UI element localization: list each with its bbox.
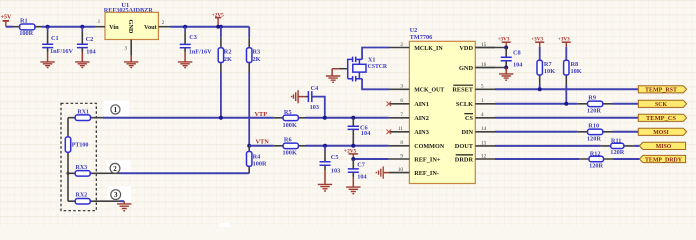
- svg-text:SCLK: SCLK: [456, 101, 473, 108]
- svg-text:100K: 100K: [283, 150, 297, 157]
- svg-text:RX2: RX2: [76, 193, 88, 199]
- capacitor C4: [306, 85, 320, 111]
- node circle 3: [111, 190, 121, 200]
- svg-text:3: 3: [124, 45, 127, 51]
- port SCK: [638, 100, 686, 108]
- svg-text:104: 104: [361, 130, 371, 137]
- U1 pin 3: [124, 40, 131, 56]
- svg-text:R3: R3: [253, 49, 261, 56]
- svg-text:RESET: RESET: [452, 87, 473, 94]
- wire X1 to MCK_OUT: [362, 79, 389, 90]
- wire R5 to AIN2: [306, 117, 389, 119]
- svg-text:6: 6: [400, 98, 403, 104]
- ground under C5: [318, 165, 332, 191]
- svg-text:1: 1: [481, 98, 484, 104]
- resistor R7: [537, 60, 555, 85]
- svg-text:7: 7: [400, 112, 403, 118]
- svg-text:C5: C5: [331, 154, 339, 161]
- svg-text:COMMON: COMMON: [414, 143, 444, 150]
- junction C2: [80, 25, 84, 29]
- resistor RX1: [68, 110, 103, 121]
- svg-text:Vin: Vin: [109, 24, 119, 31]
- wire VTP line: [103, 117, 273, 119]
- junction R7/RESET: [538, 87, 542, 91]
- resistor R10: [577, 123, 612, 143]
- junction C6 top: [351, 116, 355, 120]
- svg-text:100K: 100K: [283, 122, 297, 129]
- svg-text:GND: GND: [459, 65, 473, 72]
- junction +2V5/R2: [216, 25, 220, 29]
- wire RESET to port: [495, 88, 638, 90]
- svg-text:R6: R6: [284, 137, 292, 144]
- resistor R1: [13, 17, 42, 37]
- svg-text:DOUT: DOUT: [455, 143, 474, 150]
- svg-text:13: 13: [481, 140, 487, 146]
- svg-text:103: 103: [331, 167, 340, 174]
- junction GND/C8: [504, 66, 508, 70]
- svg-text:120R: 120R: [587, 108, 601, 115]
- port TEMP_CS: [638, 114, 686, 122]
- svg-text:2K: 2K: [224, 56, 232, 63]
- node circle 2: [110, 163, 120, 173]
- svg-text:AIN2: AIN2: [414, 115, 429, 122]
- ground at REF_IN-: [376, 166, 389, 178]
- svg-text:104: 104: [513, 62, 523, 69]
- svg-text:MISO: MISO: [656, 144, 672, 150]
- junction sensor vertical / RX3: [66, 172, 69, 175]
- resistor R4: [247, 146, 268, 174]
- svg-text:AIN1: AIN1: [414, 101, 429, 108]
- wire REF_IN+ line: [353, 158, 388, 160]
- vertical wire inside sensor box: [67, 118, 69, 202]
- wire R2 to VTP line: [220, 73, 222, 118]
- svg-text:10K: 10K: [544, 68, 555, 75]
- wire line 2 to R4: [119, 172, 249, 174]
- svg-text:C3: C3: [189, 34, 197, 41]
- svg-text:R5: R5: [284, 109, 292, 116]
- power +3V3 at R8: [558, 37, 571, 61]
- svg-text:CSTCR: CSTCR: [368, 64, 388, 70]
- port TEMP_DRDY: [639, 155, 685, 163]
- svg-text:1nF/16V: 1nF/16V: [189, 48, 213, 55]
- power +2V5 top: [212, 13, 224, 27]
- svg-text:CS: CS: [465, 115, 474, 122]
- svg-text:MCK_OUT: MCK_OUT: [414, 87, 445, 94]
- svg-text:8: 8: [400, 140, 403, 146]
- svg-text:3: 3: [114, 191, 118, 199]
- capacitor C2: [77, 27, 97, 56]
- wire R1 to U1 pin1: [42, 26, 95, 28]
- svg-text:REF_IN-: REF_IN-: [414, 170, 439, 177]
- U1 pin 1: [95, 19, 105, 27]
- white patch behind circle 1: [104, 101, 130, 117]
- port TEMP_RST: [638, 86, 686, 94]
- ground under U1 pin 3: [124, 56, 138, 68]
- capacitor C1: [42, 27, 73, 55]
- svg-text:100R: 100R: [253, 160, 267, 167]
- power +5V: [1, 15, 12, 27]
- svg-text:10K: 10K: [571, 68, 582, 75]
- svg-text:11: 11: [398, 126, 403, 132]
- svg-text:C4: C4: [311, 85, 320, 92]
- resistor R2: [218, 27, 232, 73]
- capacitor C3: [180, 27, 212, 56]
- resistor R12: [579, 150, 614, 169]
- junction C6 bottom: [351, 144, 355, 148]
- wire VTN line: [249, 145, 273, 147]
- svg-text:1: 1: [98, 19, 101, 25]
- op-amp U1 REF3025AIDBZR: [104, 2, 159, 40]
- wire X1 to MCLK_IN: [362, 48, 389, 60]
- svg-text:120R: 120R: [610, 149, 624, 156]
- svg-text:DIN: DIN: [461, 129, 473, 136]
- wire R3 to VTN line: [248, 73, 250, 146]
- svg-text:R11: R11: [611, 138, 622, 145]
- svg-text:2K: 2K: [253, 56, 261, 63]
- svg-text:X1: X1: [368, 58, 375, 64]
- wire line 3 to ground: [120, 200, 124, 202]
- svg-text:DRDR: DRDR: [455, 156, 474, 163]
- svg-text:+5V: +5V: [1, 15, 12, 21]
- junction C7 top: [351, 157, 355, 161]
- svg-text:3: 3: [400, 84, 403, 90]
- svg-text:1nF/16V: 1nF/16V: [50, 48, 74, 55]
- svg-text:VTP: VTP: [255, 111, 268, 118]
- wire +5V to R1: [6, 26, 13, 28]
- svg-text:104: 104: [86, 48, 96, 55]
- svg-text:PT100: PT100: [72, 143, 89, 149]
- power +3V3 at VDD: [498, 37, 511, 48]
- U1 pin 2: [158, 20, 170, 27]
- ground line 3: [117, 201, 131, 211]
- crystal X1 CSTCR: [348, 57, 388, 82]
- ground under C7: [346, 172, 360, 193]
- port MOSI: [638, 128, 686, 136]
- svg-text:12: 12: [481, 153, 487, 159]
- junction R2/VTP: [219, 116, 223, 120]
- wire DRDY to R12: [495, 158, 579, 160]
- dashed sensor box: [61, 103, 96, 210]
- no connect X on AIN3: [387, 130, 392, 135]
- svg-text:Vout: Vout: [144, 24, 158, 31]
- U2 left pin stubs: [389, 42, 410, 173]
- svg-text:2: 2: [113, 165, 117, 173]
- wire R9 to port SCK: [613, 103, 639, 105]
- svg-text:U2: U2: [410, 27, 418, 34]
- white patch behind circle 2: [107, 160, 131, 176]
- wire R12 to port TEMP_DRDY: [614, 158, 640, 160]
- svg-text:REF_IN+: REF_IN+: [414, 156, 441, 163]
- wire C4 to VTP line: [312, 97, 325, 118]
- ground under C8: [499, 68, 513, 81]
- wire R7 to RESET: [539, 85, 541, 89]
- svg-text:4: 4: [481, 112, 484, 118]
- svg-text:C7: C7: [357, 161, 365, 168]
- svg-text:10: 10: [398, 167, 404, 173]
- svg-text:RX1: RX1: [77, 110, 89, 116]
- svg-text:R9: R9: [588, 95, 596, 102]
- ground left of C4: [292, 90, 306, 103]
- ground under C2: [75, 48, 89, 68]
- junction C3: [183, 25, 187, 29]
- svg-text:TM7706: TM7706: [410, 34, 433, 41]
- svg-text:RX3: RX3: [76, 165, 88, 171]
- capacitor C5: [320, 146, 341, 175]
- svg-text:14: 14: [481, 126, 487, 132]
- svg-text:GND: GND: [127, 20, 134, 34]
- junction R8/SCLK: [564, 102, 568, 106]
- resistor R6: [273, 137, 305, 157]
- svg-text:MOSI: MOSI: [653, 130, 669, 136]
- resistor R3: [247, 27, 261, 73]
- svg-text:TEMP_CS: TEMP_CS: [646, 116, 676, 122]
- svg-text:R12: R12: [590, 150, 601, 157]
- svg-text:5: 5: [481, 84, 484, 90]
- junction C1: [46, 25, 50, 29]
- wire R11 to port MISO: [634, 145, 640, 147]
- white patch behind circle 3: [107, 186, 131, 202]
- svg-text:103: 103: [310, 104, 319, 111]
- resistor R5: [273, 109, 305, 129]
- wire CS to port: [495, 117, 638, 119]
- U2 right pin stubs: [475, 42, 495, 159]
- svg-text:C1: C1: [51, 35, 59, 42]
- svg-text:SCK: SCK: [655, 102, 667, 108]
- resistor PT100: [65, 137, 88, 152]
- wire GND pin16: [475, 67, 506, 69]
- svg-text:120R: 120R: [587, 136, 601, 143]
- ground X1: [326, 69, 348, 83]
- svg-text:1: 1: [114, 106, 118, 114]
- wire VDD pin15: [475, 47, 506, 49]
- svg-text:120R: 120R: [589, 163, 603, 170]
- svg-text:AIN3: AIN3: [414, 129, 429, 136]
- svg-text:VTN: VTN: [256, 138, 270, 145]
- ground under C1: [40, 48, 54, 68]
- node circle 1: [111, 105, 120, 114]
- capacitor C8: [501, 48, 524, 69]
- capacitor C7: [348, 159, 368, 181]
- svg-text:9: 9: [400, 153, 403, 159]
- svg-text:C2: C2: [86, 36, 94, 43]
- svg-text:2: 2: [400, 42, 403, 48]
- svg-text:VDD: VDD: [459, 45, 473, 52]
- svg-text:104: 104: [357, 174, 367, 181]
- resistor RX3: [68, 165, 119, 176]
- white patch bottom: [220, 223, 231, 227]
- ground under C3: [178, 48, 192, 68]
- power +2V5 mid: [344, 148, 358, 159]
- svg-text:C8: C8: [513, 50, 521, 57]
- resistor R8: [564, 60, 582, 85]
- svg-text:MCLK_IN: MCLK_IN: [414, 45, 443, 52]
- IC U2 TM7706: [409, 27, 475, 184]
- wire U1 pin2 to R3 (+2V5 rail): [170, 26, 249, 28]
- wire DIN to R10: [495, 131, 577, 133]
- resistor R11: [601, 138, 634, 156]
- resistor RX2: [68, 193, 120, 204]
- svg-text:R2: R2: [224, 49, 232, 56]
- wire R6 to COMMON: [306, 145, 389, 147]
- capacitor C6: [348, 118, 372, 146]
- power +3V3 at R7: [531, 37, 544, 61]
- junction C4/VTP: [323, 116, 327, 120]
- port MISO: [639, 142, 685, 150]
- wire R8 to SCLK: [565, 85, 567, 104]
- junction R3/R4/VTN: [247, 144, 251, 148]
- svg-text:R10: R10: [588, 123, 599, 130]
- svg-text:100R: 100R: [19, 30, 33, 37]
- junction VDD/C8: [504, 46, 508, 50]
- wire DOUT to R11: [495, 145, 601, 147]
- wire R10 to port MOSI: [613, 131, 639, 133]
- resistor R9: [577, 95, 612, 115]
- svg-text:TEMP_DRDY: TEMP_DRDY: [645, 157, 683, 163]
- wire SCLK to R9: [495, 103, 577, 105]
- no connect X on AIN1: [387, 102, 392, 107]
- svg-text:TEMP_RST: TEMP_RST: [645, 88, 677, 94]
- svg-text:R1: R1: [20, 17, 28, 24]
- svg-text:2: 2: [162, 20, 165, 26]
- junction C5 top: [323, 144, 327, 148]
